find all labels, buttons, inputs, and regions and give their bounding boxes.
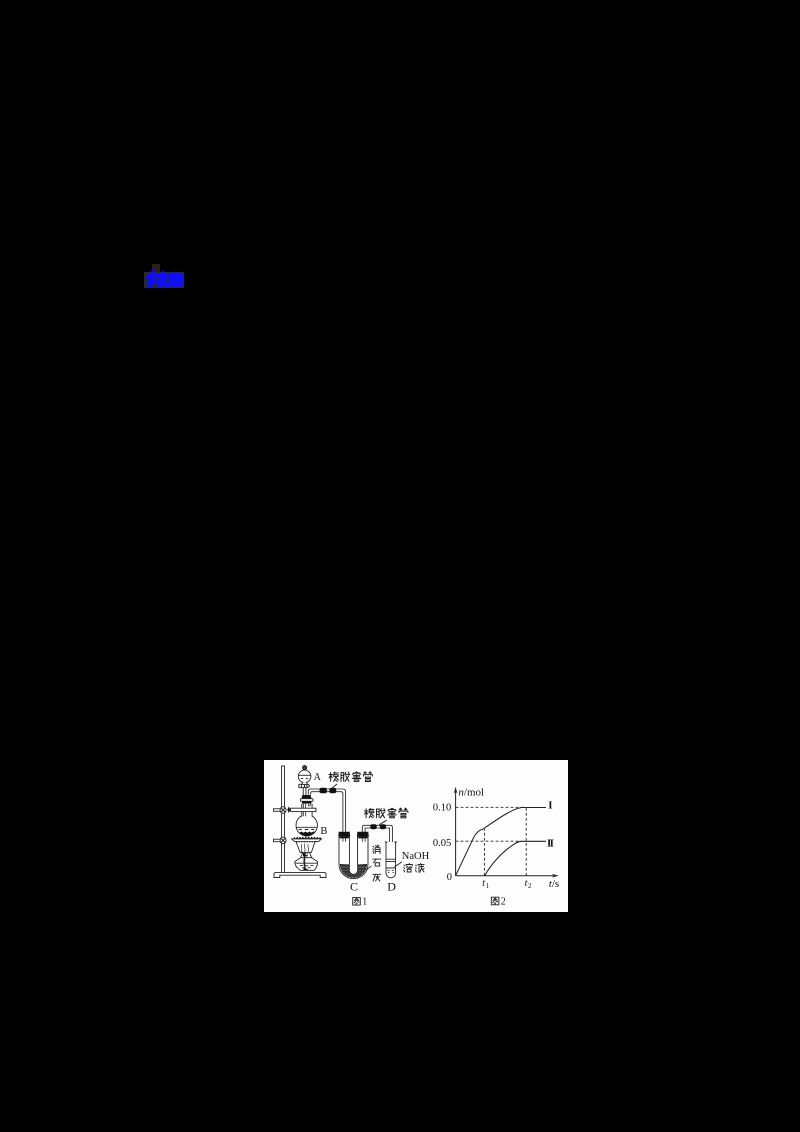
lamp wick (303, 856, 305, 869)
white figure panel (264, 760, 568, 912)
svg-text:0.10: 0.10 (433, 802, 451, 813)
alcohol level (295, 862, 317, 864)
tube from funnel to U-tube (308, 789, 345, 832)
lime fill (340, 864, 367, 878)
flame tips (293, 836, 321, 839)
label: slaked lime (vertical) (373, 845, 381, 881)
svg-text:A: A (314, 772, 322, 783)
tube stubs below stoppers (343, 838, 365, 842)
flask neck (302, 804, 312, 817)
pointer from NaOH label (394, 862, 402, 867)
pointer line 2 (379, 820, 387, 824)
svg-text:I: I (548, 800, 552, 812)
lamp body (295, 853, 318, 870)
funnel stem (303, 788, 306, 795)
flask bulb (296, 815, 317, 836)
curve I (456, 808, 546, 876)
flask stopper (301, 795, 311, 799)
svg-text:n/mol: n/mol (458, 787, 484, 799)
y axis (455, 791, 457, 876)
svg-text:B: B (320, 826, 327, 837)
caption fig 1 (353, 897, 367, 908)
caption fig 2 (491, 897, 505, 908)
rubber connector 2a (370, 824, 376, 829)
label: rubber sleeve 2 (364, 808, 407, 818)
heated bottom (298, 832, 315, 836)
graph labels (433, 787, 559, 890)
svg-text:2: 2 (528, 882, 532, 890)
pointer line 1 (331, 784, 337, 789)
svg-text:0.05: 0.05 (433, 838, 451, 849)
dashed t2 vertical (525, 807, 527, 875)
rubber connector 1b (329, 788, 336, 794)
curve II (485, 841, 546, 875)
dashed t1 vertical (483, 829, 485, 876)
svg-text:C: C (350, 880, 358, 894)
stand pole (282, 766, 285, 873)
alcohol shading (300, 865, 314, 867)
funnel bulb (298, 770, 311, 783)
under-plate fringe (295, 842, 316, 843)
tube inside neck (303, 804, 310, 817)
blue highlight widget (152, 264, 160, 272)
svg-text:t/s: t/s (549, 878, 559, 890)
svg-text:II: II (547, 837, 554, 849)
liquid in flask (297, 826, 317, 828)
rubber connector 2b (380, 824, 386, 829)
burner flame strands (301, 844, 309, 854)
solution lines (386, 859, 395, 868)
lamp wick holder (303, 853, 308, 857)
stand base (274, 873, 326, 878)
svg-text:1: 1 (362, 897, 367, 908)
x axis (456, 875, 554, 877)
label: rubber sleeve 1 (329, 772, 372, 782)
label solution (404, 863, 424, 872)
svg-text:0: 0 (447, 872, 452, 883)
clamp 1 bar (291, 808, 316, 811)
test tube body (386, 842, 396, 878)
funnel stopcock (302, 782, 308, 784)
clamp 1 screw (287, 806, 290, 813)
clamp 2 boss (280, 837, 286, 844)
U-tube stoppers (339, 832, 349, 835)
funnel knob (303, 766, 307, 770)
U-tube body (339, 832, 368, 879)
dashed 0.05 level (456, 840, 521, 842)
dashed 0.10 level (456, 806, 524, 808)
lamp collar (301, 857, 312, 859)
pointer from lime label (366, 866, 371, 870)
svg-text:2: 2 (501, 897, 506, 908)
clamp 1 rod (274, 809, 282, 812)
svg-text:D: D (387, 880, 396, 894)
clamp 1 boss (280, 807, 286, 814)
iron ring plate (292, 839, 322, 842)
clamp 2 rod (274, 839, 282, 842)
svg-text:1: 1 (486, 882, 490, 890)
alcohol lamp burner cone (296, 841, 315, 852)
rubber connector 1a (320, 788, 327, 794)
svg-text:NaOH: NaOH (402, 851, 430, 862)
tube from U-tube to test tube (362, 825, 392, 870)
